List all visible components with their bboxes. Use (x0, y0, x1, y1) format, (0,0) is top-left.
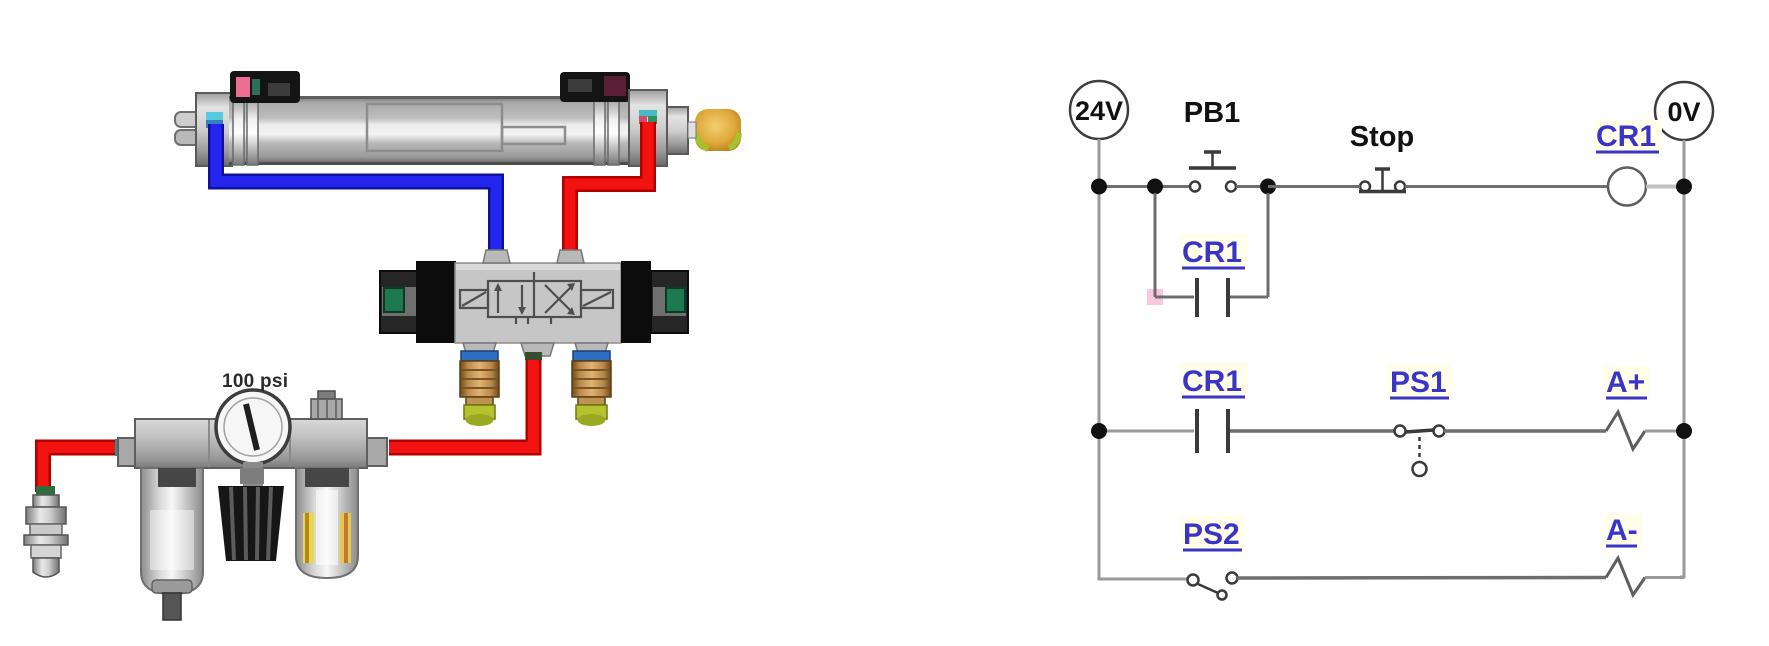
holding branch right rise wire (1267, 193, 1270, 297)
0V supply terminal (1655, 82, 1713, 140)
cylinder right tie-rod flange (594, 94, 619, 165)
cylinder rear mounting lug (175, 112, 201, 145)
svg-text:100 psi: 100 psi (222, 371, 288, 392)
reed sensor PS1 (right, dark LED) (560, 72, 630, 102)
head port fitting (639, 110, 657, 124)
relay coil CR1 (1608, 168, 1646, 206)
pushbutton PB1 (NO) (1189, 152, 1236, 192)
label PS1 (1388, 364, 1452, 400)
valve bottom port stubs (463, 343, 608, 356)
lubricator fill cap (311, 391, 342, 419)
rung 3 wire: rail corner to PS2 (1099, 578, 1188, 581)
cylinder head end cap (629, 90, 667, 166)
right 0V rail (1683, 140, 1686, 431)
yellow rod end nut (688, 109, 741, 151)
rung 1 wire: branch to Stop segment junction (1268, 185, 1360, 188)
valve body (5/2 directional valve) (455, 263, 621, 343)
rung 1 wire: PB1 to Stop (1236, 185, 1360, 188)
valve left cable connector with green LED (380, 271, 418, 333)
svg-text:CR1: CR1 (1182, 365, 1242, 398)
rung 1 wire: Stop to coil CR1 (1405, 185, 1608, 188)
pushbutton Stop (NC) (1359, 169, 1406, 192)
valve left solenoid (416, 261, 456, 343)
valve top port stubs (483, 250, 584, 263)
lubricator bowl with oil (296, 468, 358, 578)
filter bowl (141, 468, 203, 620)
reed sensor PS2 (left, with pink LED) (230, 71, 300, 103)
rod bushing (667, 107, 688, 154)
svg-text:A-: A- (1606, 514, 1638, 547)
svg-text:PS2: PS2 (1183, 518, 1240, 551)
label CR1 (holding contact) (1180, 234, 1248, 270)
contact CR1 (rung 2, NO) (1197, 409, 1228, 453)
blue tube (cylinder rear port to valve port A) (216, 124, 505, 262)
svg-text:PS1: PS1 (1390, 366, 1447, 399)
right rail lower section to rung 3 (1680, 431, 1684, 577)
junction node rung1 right rail (1676, 179, 1692, 195)
rung 2 wire: rail to CR1 contact (1099, 430, 1194, 433)
valve schematic symbol (460, 272, 613, 324)
wire: coil to right rail (1646, 185, 1684, 189)
label PS2 (1181, 516, 1245, 552)
svg-text:0V: 0V (1667, 97, 1700, 127)
label CR1 (coil) (1594, 120, 1662, 154)
piston position indicator (367, 104, 565, 151)
red tube (cylinder head port to valve port B) (561, 122, 648, 262)
24V supply terminal (1070, 81, 1128, 139)
holding branch wire from contact (1230, 296, 1268, 299)
solenoid A- (1606, 558, 1645, 595)
cylinder left tie-rod flange (233, 94, 258, 165)
contact CR1 (holding, NO) (1197, 278, 1228, 317)
pressure switch PS1 (NO, closed) (1395, 426, 1445, 477)
cylinder rear end cap (196, 93, 232, 166)
label A+ (1604, 366, 1650, 400)
svg-text:A+: A+ (1606, 366, 1645, 399)
svg-text:24V: 24V (1075, 96, 1123, 126)
label A- (1604, 514, 1642, 548)
svg-text:CR1: CR1 (1596, 120, 1656, 153)
rung 2 wire: PS1 to A+ (1444, 429, 1606, 433)
pressure gauge 100 psi (216, 390, 290, 486)
label CR1 (rung 2 contact) (1180, 363, 1248, 399)
red inlet tube (air plug to FRL inlet) (36, 439, 123, 495)
left exhaust silencer (460, 351, 499, 426)
junction node branch left (1147, 179, 1163, 195)
rung 3 wire: PS2 to A- (1237, 576, 1606, 580)
junction node branch right (1260, 179, 1276, 195)
FRL manifold heads bar (118, 419, 387, 468)
valve right cable connector with green LED (651, 271, 688, 333)
right exhaust silencer (572, 351, 611, 426)
wire: A- to right rail (1645, 576, 1684, 579)
junction node rung1 left rail (1091, 179, 1107, 195)
valve right solenoid (621, 261, 651, 343)
red supply tube (FRL outlet to valve port P) (389, 352, 542, 448)
holding branch wire to contact (1155, 296, 1194, 299)
left 24V rail (1098, 139, 1101, 431)
junction node rung2 left (1091, 423, 1107, 439)
air supply quick-connect plug (24, 495, 68, 577)
left rail lower section to rung 3 (1099, 431, 1104, 579)
holding branch left drop wire (1154, 193, 1157, 297)
svg-text:Stop: Stop (1350, 121, 1414, 153)
svg-text:PB1: PB1 (1184, 97, 1240, 129)
solenoid A+ (1606, 412, 1645, 449)
svg-text:CR1: CR1 (1182, 236, 1242, 269)
rung 1 wire: rail to PB1 (1099, 185, 1190, 188)
regulator adjusting knob (218, 468, 284, 561)
pressure switch PS2 (NO, open) (1188, 573, 1238, 600)
wire: A+ to right rail (1645, 430, 1684, 433)
holding branch: node marker (pink) (1147, 289, 1163, 305)
rear port fitting (206, 112, 223, 128)
junction node rung2 right (1676, 423, 1692, 439)
rung 2 wire: contact to PS1 (1230, 429, 1395, 433)
cylinder barrel (229, 96, 630, 165)
